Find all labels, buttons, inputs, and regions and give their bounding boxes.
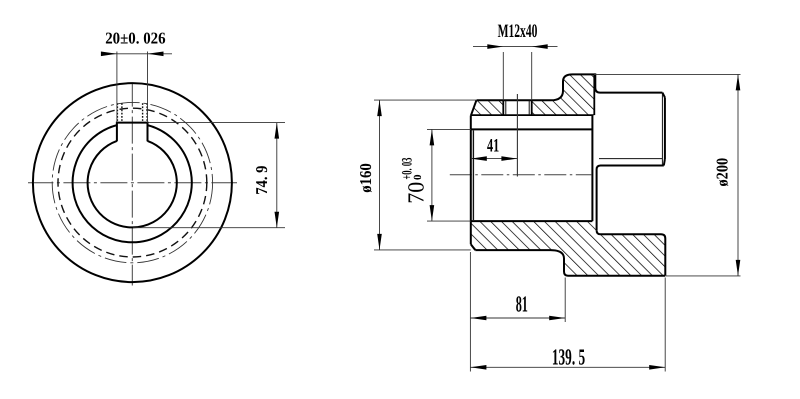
recess back wall bbox=[596, 170, 598, 231]
flange right face (top) bbox=[594, 73, 596, 88]
horizontal centerline of left view bbox=[28, 182, 237, 184]
svg-text:70: 70 bbox=[403, 182, 428, 204]
dimension M12x40 : left extension line bbox=[502, 52, 504, 100]
svg-text:M12x40: M12x40 bbox=[498, 21, 538, 42]
bore circle with keyway gap bbox=[88, 141, 177, 227]
fillet recess top to recess wall bbox=[597, 166, 601, 170]
fillet flange bottom to left face bbox=[564, 272, 568, 276]
outer surface of hub (top) bbox=[476, 99, 551, 101]
dimension 81 : right extension line bbox=[564, 278, 566, 323]
svg-text:ø160: ø160 bbox=[356, 163, 375, 193]
fillet ledge to flange right face bbox=[661, 234, 665, 238]
dimension 20±0.026 : right extension line bbox=[147, 52, 149, 123]
dimension 41 : left arrow bbox=[471, 156, 487, 161]
svg-text:81: 81 bbox=[516, 292, 528, 317]
dimension 139.5 : right arrow bbox=[649, 365, 665, 370]
dimension 81 : left extension line bbox=[469, 252, 471, 372]
flange right face (bottom) bbox=[664, 239, 666, 276]
dimension φ200 : dimension line bbox=[737, 74, 739, 276]
bore top line bbox=[471, 128, 593, 130]
boss top-right chamfer bbox=[662, 93, 665, 98]
dimension φ160 : bottom extension line bbox=[374, 249, 471, 251]
flange face / hatch boundary (upper) bbox=[593, 74, 595, 115]
dimension 20±0.026 : dimension line bbox=[101, 53, 172, 55]
horizontal centerline of section bbox=[450, 174, 592, 176]
dimension 20±0.026 : left extension line bbox=[116, 52, 118, 123]
flange top surface bbox=[573, 73, 596, 75]
recess mouth chamfer edge line bbox=[599, 158, 662, 160]
bore end wall bbox=[591, 115, 593, 221]
hidden tapped-hole line (left outer, dashed) bbox=[116, 103, 118, 122]
dimension φ200 : bottom arrow bbox=[736, 260, 741, 276]
keyway bottom line in section bbox=[471, 114, 594, 116]
dimension 81 : left arrow bbox=[470, 316, 486, 321]
boss right face bbox=[664, 97, 666, 159]
ledge edge (recess bottom) bbox=[601, 233, 662, 235]
hidden tapped-hole line (right outer, dashed) bbox=[146, 103, 148, 122]
bottom-left chamfer bbox=[471, 244, 476, 250]
hidden recess circle (dashed) bbox=[58, 108, 207, 257]
outer circle (flange OD) bbox=[33, 83, 232, 282]
M12 tapped hole left edge bbox=[502, 100, 504, 115]
dimension φ160 : dimension line bbox=[379, 100, 381, 250]
intermediate circle bbox=[73, 125, 192, 242]
svg-text:0: 0 bbox=[412, 174, 424, 180]
dimension 81 : right arrow bbox=[549, 316, 565, 321]
dimension φ200 : top extension line bbox=[594, 73, 741, 75]
dimension φ160 : bottom arrow bbox=[377, 234, 382, 250]
fillet flange to hub (bottom) bbox=[551, 250, 565, 258]
dimension M12x40 : right arrow bbox=[532, 44, 548, 49]
dimension 74.9 : top arrow bbox=[275, 123, 280, 139]
M12 hole centerline bbox=[516, 94, 518, 177]
dimension 41 : right arrow bbox=[501, 156, 517, 161]
svg-text:41: 41 bbox=[487, 136, 499, 157]
keyway right wall bbox=[147, 123, 149, 142]
flange bottom surface bbox=[568, 275, 665, 277]
boss top edge bbox=[600, 92, 662, 94]
svg-text:20±0. 026: 20±0. 026 bbox=[105, 29, 165, 48]
dimension 74.9 : bottom extension line bbox=[133, 227, 285, 229]
keyway top edge bbox=[116, 122, 149, 124]
bottom hatched wall and flange bbox=[471, 221, 666, 276]
bore bottom line bbox=[471, 220, 593, 222]
dimension φ160 : top arrow bbox=[377, 100, 382, 116]
svg-text:139. 5: 139. 5 bbox=[552, 344, 585, 369]
top hatched wall (right of M12 hole) and flange top bbox=[532, 74, 594, 115]
dimension M12x40 : right extension line bbox=[531, 52, 533, 100]
dimension 70 +0.03/0 : top arrow bbox=[430, 129, 435, 145]
dimension 70 +0.03/0 : bottom arrow bbox=[430, 205, 435, 221]
dimension 74.9 : bottom arrow bbox=[275, 212, 280, 228]
fillet hub to flange (top left) bbox=[551, 74, 573, 100]
dimension φ200 : bottom extension line bbox=[666, 275, 741, 277]
dimension φ200 : top arrow bbox=[736, 74, 741, 90]
recess top edge (boss bottom) bbox=[601, 165, 664, 167]
dimension φ160 : top extension line bbox=[374, 99, 476, 101]
dimension 139.5 : right extension line bbox=[664, 278, 666, 372]
hidden tapped-hole line (left inner, dashed) bbox=[121, 103, 123, 122]
dimension 20±0.026 : left arrow bbox=[101, 52, 117, 57]
left face of part bbox=[470, 116, 472, 245]
fillet flange face to boss top bbox=[595, 88, 600, 93]
flange left face (bottom) bbox=[563, 259, 565, 272]
fillet recess wall to ledge bbox=[597, 230, 601, 234]
boss chamfer edge line (vertical) bbox=[661, 94, 663, 165]
hidden tapped-hole line (right inner, dashed) bbox=[142, 103, 144, 122]
dimension 70 +0.03/0 : top extension line bbox=[427, 128, 471, 130]
top hatched wall (left of M12 hole) bbox=[471, 100, 504, 115]
dimension 139.5 : left arrow bbox=[470, 365, 486, 370]
top-left chamfer bbox=[471, 100, 477, 116]
M12 thread line right bbox=[528, 100, 530, 115]
dimension 74.9 : top extension line bbox=[149, 122, 286, 124]
M12 thread line left bbox=[505, 100, 507, 115]
vertical centerline of left view bbox=[131, 83, 133, 286]
outer surface of hub (bottom) bbox=[475, 249, 550, 251]
dimension 81 : dimension line bbox=[470, 317, 565, 319]
dimension M12x40 : dimension line bbox=[473, 46, 558, 48]
dimension 74.9 : dimension line bbox=[276, 123, 278, 228]
svg-text:74. 9: 74. 9 bbox=[252, 166, 271, 195]
dimension 139.5 : dimension line bbox=[470, 366, 665, 368]
bore entry chamfer line at left face bbox=[472, 131, 474, 221]
dimension M12x40 : left arrow bbox=[487, 44, 503, 49]
svg-text:ø200: ø200 bbox=[713, 158, 732, 187]
dimension 70 +0.03/0 : bottom extension line bbox=[427, 220, 471, 222]
boss bottom-right chamfer bbox=[664, 159, 665, 165]
dimension 20±0.026 : right arrow bbox=[148, 52, 164, 57]
dimension 70 +0.03/0 : dimension line bbox=[431, 129, 433, 221]
M12 tapped hole right edge bbox=[531, 100, 533, 115]
dimension 41 : dimension line bbox=[471, 158, 518, 160]
bolt-circle (thin dash-dot circle) bbox=[52, 102, 212, 262]
keyway left wall bbox=[116, 123, 118, 142]
